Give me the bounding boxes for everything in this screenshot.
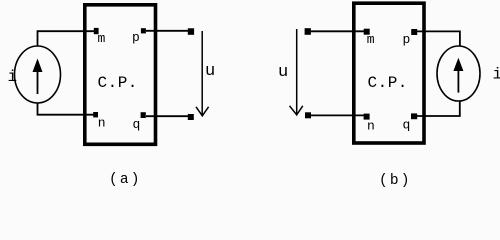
terminal q (b) bbox=[411, 113, 417, 119]
current source I1 (a) bbox=[15, 46, 61, 103]
wire node m' to terminal m (b) bbox=[311, 30, 365, 32]
terminal p (b) bbox=[411, 29, 417, 35]
current source I2 (b) bbox=[437, 46, 480, 101]
svg-text:n: n bbox=[367, 118, 375, 133]
node n' square (b) bbox=[305, 112, 311, 118]
node m' square (b) bbox=[305, 28, 311, 35]
svg-text:(a): (a) bbox=[109, 172, 142, 188]
node p' square (a) bbox=[188, 28, 194, 35]
wire I1 top to terminal m (a) bbox=[38, 31, 95, 46]
svg-text:C.P.: C.P. bbox=[368, 74, 408, 92]
svg-text:i: i bbox=[493, 65, 500, 83]
svg-text:p: p bbox=[403, 32, 411, 47]
svg-text:(b): (b) bbox=[379, 173, 412, 188]
two-port network box (b) bbox=[354, 3, 424, 143]
svg-text:m: m bbox=[367, 32, 375, 47]
wire node n' to terminal n (b) bbox=[311, 114, 365, 116]
svg-text:u: u bbox=[278, 63, 288, 82]
wire terminal p to node p' (a) bbox=[146, 30, 189, 32]
svg-text:n: n bbox=[98, 116, 106, 131]
wire I1 bottom to terminal n (a) bbox=[38, 103, 95, 115]
svg-text:q: q bbox=[133, 117, 141, 132]
voltage arrow u (a) bbox=[196, 31, 209, 116]
svg-text:C.P.: C.P. bbox=[98, 74, 138, 92]
svg-text:q: q bbox=[403, 118, 411, 133]
svg-text:u: u bbox=[205, 62, 215, 81]
current arrow inside I1 bbox=[33, 59, 43, 95]
two-port network box (a) bbox=[85, 5, 156, 145]
wire terminal q to node q' (a) bbox=[146, 115, 189, 117]
svg-text:m: m bbox=[98, 31, 106, 46]
terminal n (a) bbox=[93, 112, 98, 117]
terminal p (a) bbox=[141, 28, 146, 33]
svg-text:i: i bbox=[8, 68, 18, 86]
wire terminal p to I2 top (b) bbox=[417, 31, 460, 46]
terminal n (b) bbox=[364, 114, 370, 120]
node q' square (a) bbox=[188, 114, 194, 120]
voltage arrow u (b) bbox=[290, 29, 303, 115]
terminal m (b) bbox=[364, 29, 370, 35]
wire I2 bottom to terminal q (b) bbox=[417, 101, 460, 116]
terminal q (a) bbox=[141, 112, 146, 118]
svg-text:p: p bbox=[132, 30, 140, 45]
current arrow inside I2 bbox=[453, 58, 463, 93]
terminal m (a) bbox=[94, 28, 99, 34]
